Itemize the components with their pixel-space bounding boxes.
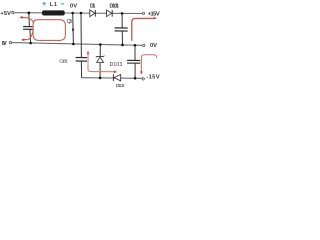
svg-text:D102: D102 [116, 83, 125, 88]
svg-text:+5V: +5V [0, 11, 11, 17]
svg-text:+15V: +15V [148, 12, 160, 18]
svg-text:-15V: -15V [146, 74, 159, 80]
svg-text:L1: L1 [50, 2, 57, 8]
svg-text:D101: D101 [110, 3, 120, 9]
svg-text:Q3: Q3 [67, 19, 72, 25]
svg-text:D103: D103 [110, 62, 123, 68]
svg-text:D1: D1 [90, 3, 96, 9]
svg-text:0V: 0V [150, 43, 157, 49]
svg-text:0V: 0V [70, 4, 77, 10]
svg-text:C101: C101 [59, 59, 68, 64]
svg-text:0V: 0V [2, 41, 7, 47]
